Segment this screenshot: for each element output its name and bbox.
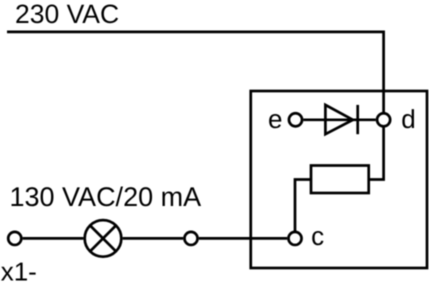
svg-text:x1-: x1- [1,257,37,287]
svg-text:d: d [401,104,415,134]
svg-text:130 VAC/20 mA: 130 VAC/20 mA [10,182,202,212]
svg-text:e: e [268,104,282,134]
svg-text:230 VAC: 230 VAC [15,0,119,29]
svg-text:c: c [311,221,324,251]
